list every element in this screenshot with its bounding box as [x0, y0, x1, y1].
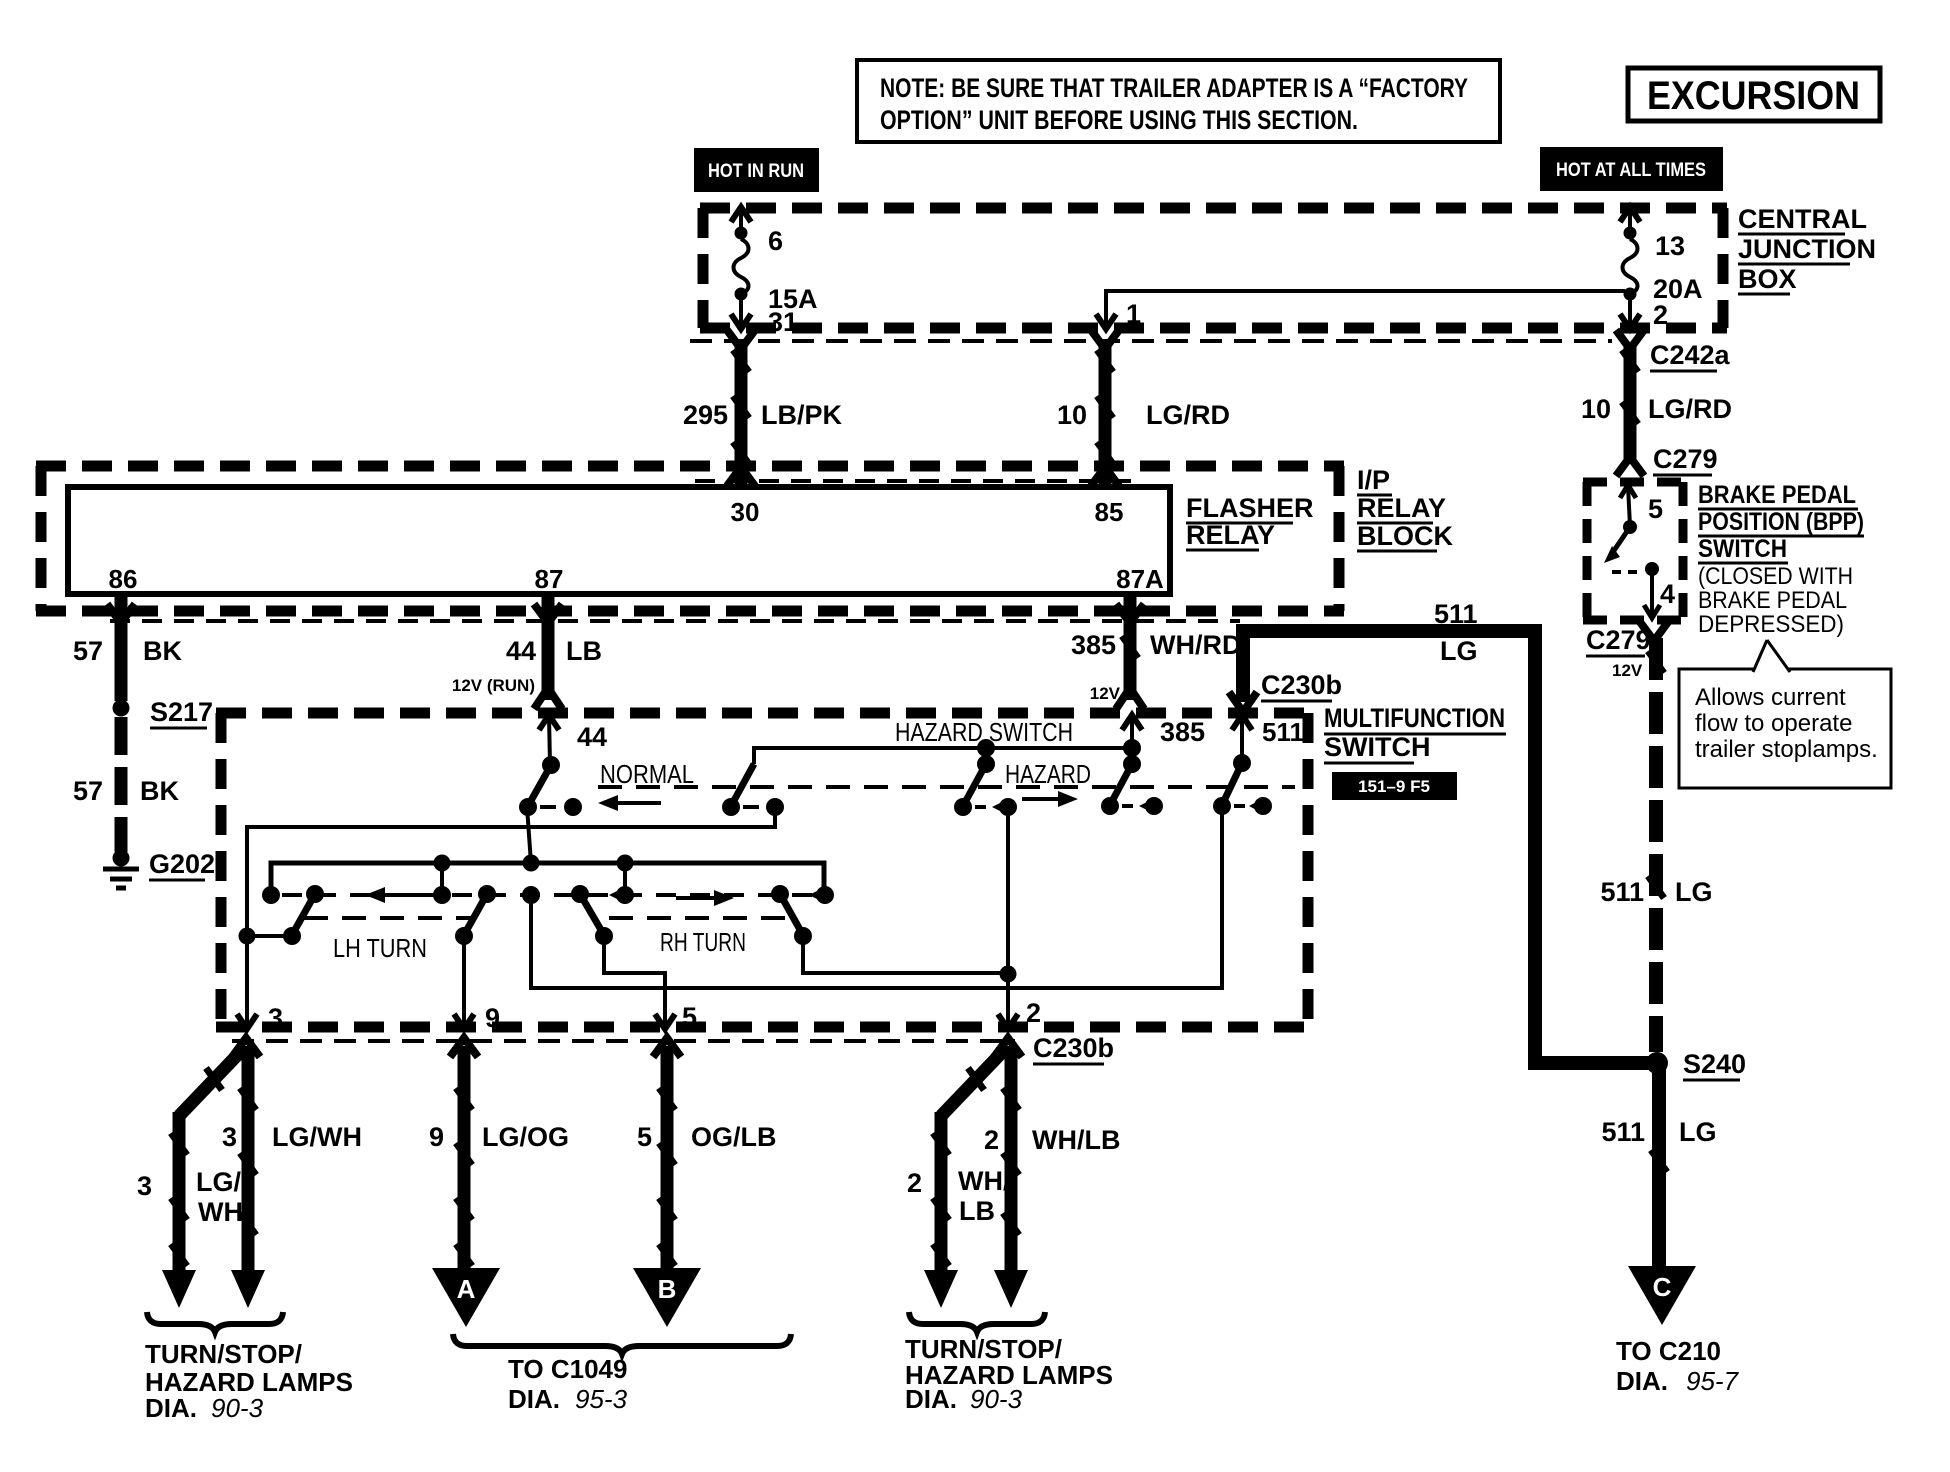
svg-text:DIA.: DIA. — [508, 1384, 560, 1414]
svg-text:G202: G202 — [149, 849, 215, 879]
tag 151-9 F5 — [1332, 772, 1457, 800]
svg-text:13: 13 — [1655, 231, 1685, 261]
svg-text:WH/RD: WH/RD — [1150, 630, 1241, 660]
switch lever RH-1 — [571, 885, 613, 945]
svg-text:A: A — [457, 1274, 476, 1304]
svg-text:NORMAL: NORMAL — [600, 759, 694, 789]
BPP lever — [1604, 527, 1630, 563]
svg-text:85: 85 — [1095, 497, 1124, 527]
wire 44 LB — [452, 594, 602, 709]
BPP pin 5 — [1620, 485, 1663, 534]
svg-text:12V: 12V — [1090, 684, 1121, 703]
multifunction switch box (dashed) — [216, 713, 1313, 1027]
svg-text:S217: S217 — [150, 697, 213, 727]
svg-text:4: 4 — [1660, 579, 1675, 609]
wire RH-2 contact to node — [803, 936, 1004, 973]
central junction box label — [1738, 204, 1876, 294]
note box — [857, 60, 1500, 142]
svg-text:44: 44 — [506, 636, 536, 666]
multifunction switch label — [1324, 703, 1506, 763]
wire 10 LG/RD (right) — [1581, 330, 1732, 476]
svg-text:DIA.: DIA. — [145, 1393, 197, 1423]
switch lever hazard-left — [954, 764, 1017, 816]
connector C242a label — [1650, 340, 1731, 371]
arrow hazard right — [1022, 791, 1078, 807]
svg-text:87: 87 — [535, 564, 564, 594]
destination text left — [145, 1339, 353, 1423]
svg-text:10: 10 — [1057, 400, 1087, 430]
upper contact dashed row — [598, 785, 1295, 789]
switch lever 511 — [1213, 763, 1272, 815]
wire CJB pin1 jumper — [1096, 291, 1625, 329]
lower position dashed rows — [304, 916, 471, 920]
wire 511 LG thick (C230b to S240 run) — [1229, 599, 1649, 1063]
destination text right — [905, 1334, 1113, 1414]
svg-text:2: 2 — [907, 1168, 922, 1198]
wire 2 WH/LB pair — [907, 1038, 1121, 1308]
svg-text:B: B — [658, 1274, 677, 1304]
svg-text:90-3: 90-3 — [970, 1384, 1023, 1414]
wire 5 OG/LB — [637, 1038, 777, 1270]
contact dots turn row — [433, 886, 834, 904]
wire 3 LG/WH pair — [137, 1038, 362, 1308]
svg-text:57: 57 — [73, 776, 103, 806]
svg-text:HOT IN RUN: HOT IN RUN — [708, 161, 804, 182]
svg-text:RELAY: RELAY — [1357, 493, 1446, 523]
svg-text:BRAKE PEDAL: BRAKE PEDAL — [1698, 481, 1856, 509]
switch lever LH-1 — [283, 885, 324, 945]
svg-text:TO C210: TO C210 — [1616, 1336, 1721, 1366]
svg-text:12V: 12V — [1612, 661, 1643, 680]
I/P relay block (dashed) — [36, 466, 1344, 611]
svg-text:151–9 F5: 151–9 F5 — [1358, 777, 1430, 796]
callout note box — [1679, 640, 1891, 788]
svg-text:TURN/STOP/: TURN/STOP/ — [145, 1339, 302, 1369]
connector C230b label (bottom) — [1033, 1033, 1114, 1064]
destination text C210 — [1616, 1336, 1740, 1396]
svg-text:BK: BK — [143, 636, 182, 666]
hazard switch feed line — [754, 717, 1132, 773]
svg-text:LB: LB — [566, 636, 602, 666]
node A rail (normal-right contact to LH turn) — [237, 807, 775, 1029]
svg-text:SWITCH: SWITCH — [1698, 535, 1787, 563]
svg-text:3: 3 — [268, 1003, 283, 1033]
svg-text:OPTION” UNIT BEFORE USING THIS: OPTION” UNIT BEFORE USING THIS SECTION. — [880, 105, 1358, 135]
BPP pin 4 — [1612, 562, 1675, 618]
offpage arrow B — [633, 1268, 701, 1327]
svg-text:9: 9 — [429, 1122, 444, 1152]
svg-text:C230b: C230b — [1261, 670, 1342, 700]
arrow normal left — [598, 795, 661, 811]
connector C279 label (upper) — [1653, 444, 1718, 475]
brace turn/stop lamps left — [147, 1312, 283, 1332]
svg-text:385: 385 — [1071, 630, 1116, 660]
svg-text:DEPRESSED): DEPRESSED) — [1698, 611, 1844, 638]
svg-text:LG/: LG/ — [196, 1167, 241, 1197]
svg-text:I/P: I/P — [1357, 465, 1390, 495]
svg-text:flow to operate: flow to operate — [1695, 710, 1852, 737]
terminal 385 entry — [1122, 715, 1205, 773]
svg-text:LG: LG — [1675, 877, 1713, 907]
svg-text:OG/LB: OG/LB — [691, 1122, 777, 1152]
wire 385 WH/RD — [1071, 594, 1242, 709]
svg-text:3: 3 — [222, 1122, 237, 1152]
svg-text:LG/WH: LG/WH — [272, 1122, 362, 1152]
svg-text:44: 44 — [577, 722, 607, 752]
svg-text:CENTRAL: CENTRAL — [1738, 204, 1867, 234]
svg-text:90-3: 90-3 — [211, 1393, 264, 1423]
svg-text:LG/RD: LG/RD — [1648, 394, 1732, 424]
svg-text:95-7: 95-7 — [1686, 1366, 1740, 1396]
connector C279 label (lower) — [1586, 625, 1651, 680]
svg-text:S240: S240 — [1683, 1049, 1746, 1079]
svg-text:LB: LB — [959, 1196, 995, 1226]
svg-text:C242a: C242a — [1650, 340, 1731, 370]
offpage arrow A — [432, 1268, 500, 1327]
svg-text:EXCURSION: EXCURSION — [1647, 74, 1860, 118]
wire 511 LG (dashed thick, BPP to S240) — [1600, 622, 1712, 1052]
svg-text:TO C1049: TO C1049 — [508, 1354, 627, 1384]
svg-text:RH TURN: RH TURN — [660, 927, 746, 957]
svg-text:BOX: BOX — [1738, 264, 1797, 294]
svg-text:31: 31 — [768, 307, 798, 337]
connector line C242 under CJB — [690, 339, 1612, 343]
BPP switch box (dashed) — [1583, 482, 1687, 620]
switch lever normal-left — [519, 765, 582, 816]
svg-text:HOT AT ALL TIMES: HOT AT ALL TIMES — [1556, 160, 1706, 181]
wire hazard-left contact drop to terminal 2 — [998, 807, 1018, 1029]
svg-text:JUNCTION: JUNCTION — [1738, 234, 1876, 264]
BPP switch label — [1698, 481, 1864, 638]
svg-text:9: 9 — [485, 1003, 500, 1033]
wire 9 LG/OG — [429, 1038, 569, 1270]
brace turn/stop lamps right — [909, 1312, 1045, 1332]
I/P relay block label — [1357, 465, 1453, 551]
svg-text:5: 5 — [1648, 494, 1663, 524]
power tag HOT AT ALL TIMES — [1540, 147, 1723, 191]
flasher relay label — [1186, 493, 1314, 550]
svg-text:(CLOSED WITH: (CLOSED WITH — [1698, 563, 1853, 590]
offpage arrow C — [1628, 1266, 1696, 1325]
arrow RH turn — [676, 890, 734, 906]
svg-text:LG/RD: LG/RD — [1146, 400, 1230, 430]
terminal 511 entry — [1232, 715, 1304, 772]
svg-text:2: 2 — [1026, 998, 1041, 1028]
fuse F13 20A — [1620, 207, 1703, 330]
fuse F6 15A — [731, 207, 818, 337]
svg-text:2: 2 — [984, 1125, 999, 1155]
switch lever 385 — [1101, 764, 1163, 815]
svg-text:5: 5 — [637, 1122, 652, 1152]
power tag HOT IN RUN — [694, 148, 819, 192]
svg-text:DIA.: DIA. — [905, 1384, 957, 1414]
svg-text:BRAKE PEDAL: BRAKE PEDAL — [1698, 587, 1847, 614]
arrow LH turn — [365, 887, 428, 903]
svg-text:95-3: 95-3 — [575, 1384, 628, 1414]
svg-text:LB/PK: LB/PK — [761, 400, 843, 430]
wire LH-2 contact to terminal 9 — [454, 936, 474, 1029]
svg-text:FLASHER: FLASHER — [1186, 493, 1314, 523]
svg-text:BK: BK — [140, 776, 179, 806]
node B rail (common rail) — [262, 807, 824, 904]
svg-text:POSITION (BPP): POSITION (BPP) — [1698, 508, 1864, 536]
svg-text:87A: 87A — [1116, 564, 1164, 594]
title EXCURSION — [1628, 68, 1880, 121]
svg-text:30: 30 — [731, 497, 760, 527]
svg-text:C279: C279 — [1653, 444, 1718, 474]
svg-text:LG/OG: LG/OG — [482, 1122, 569, 1152]
terminal 44 entry — [539, 715, 607, 774]
svg-text:511: 511 — [1434, 599, 1478, 629]
svg-text:LG: LG — [1440, 636, 1478, 666]
svg-text:SWITCH: SWITCH — [1324, 732, 1430, 762]
wire 511 LG (S240 to C) — [1601, 1063, 1716, 1268]
connector line C230b bottom — [232, 1039, 1015, 1043]
turn contact dashed row — [282, 893, 818, 897]
svg-text:3: 3 — [137, 1171, 152, 1201]
brace to C1049 — [453, 1334, 791, 1354]
switch lever LH-2 — [455, 885, 496, 945]
svg-text:WH/: WH/ — [958, 1166, 1011, 1196]
svg-text:C: C — [1653, 1272, 1672, 1302]
svg-text:86: 86 — [109, 564, 138, 594]
destination text C1049 — [508, 1354, 628, 1414]
central junction box (dashed) — [700, 208, 1727, 328]
svg-text:LH TURN: LH TURN — [333, 933, 427, 963]
splice S217 — [113, 697, 214, 728]
ground G202 — [103, 849, 215, 888]
svg-text:57: 57 — [73, 636, 103, 666]
wire RH-1 contact to terminal 5 — [604, 936, 675, 1029]
wire 295 LB/PK — [683, 330, 843, 487]
switch lever normal-right — [722, 764, 784, 816]
svg-text:HAZARD: HAZARD — [1005, 759, 1091, 789]
svg-text:511: 511 — [1601, 1117, 1645, 1147]
switch lever RH-2 — [771, 885, 812, 945]
svg-text:295: 295 — [683, 400, 728, 430]
svg-text:1: 1 — [1126, 299, 1141, 329]
flasher relay pins — [109, 497, 1165, 594]
svg-text:LG: LG — [1679, 1117, 1717, 1147]
svg-text:BLOCK: BLOCK — [1357, 521, 1453, 551]
flasher relay box — [68, 487, 1170, 594]
terminal pin labels — [268, 998, 1041, 1033]
svg-text:WH/LB: WH/LB — [1032, 1125, 1120, 1155]
svg-text:511: 511 — [1600, 877, 1644, 907]
splice S240 — [1646, 1049, 1746, 1080]
svg-text:NOTE: BE SURE THAT TRAILER ADA: NOTE: BE SURE THAT TRAILER ADAPTER IS A … — [880, 73, 1468, 103]
svg-text:385: 385 — [1160, 717, 1205, 747]
wire 57 BK lower (dashed thick) — [73, 717, 180, 852]
wire 10 LG/RD (mid) — [1057, 330, 1230, 487]
svg-text:511: 511 — [1262, 717, 1304, 747]
svg-text:Allows current: Allows current — [1695, 684, 1846, 711]
svg-text:MULTIFUNCTION: MULTIFUNCTION — [1324, 703, 1505, 733]
wire 57 BK upper — [73, 594, 183, 701]
svg-text:DIA.: DIA. — [1616, 1366, 1668, 1396]
connector C230b label (top) — [1261, 670, 1342, 701]
svg-text:2: 2 — [1653, 300, 1668, 330]
svg-text:WH: WH — [198, 1197, 243, 1227]
wire 511 lever feed run — [531, 806, 1222, 988]
svg-text:12V (RUN): 12V (RUN) — [452, 676, 535, 695]
svg-text:trailer stoplamps.: trailer stoplamps. — [1695, 736, 1878, 763]
connector line at relay block top — [695, 479, 1135, 483]
svg-text:5: 5 — [682, 1002, 697, 1032]
connector line at relay block bottom — [110, 619, 1240, 623]
svg-text:C230b: C230b — [1033, 1033, 1114, 1063]
svg-text:10: 10 — [1581, 394, 1611, 424]
svg-text:6: 6 — [768, 226, 783, 256]
